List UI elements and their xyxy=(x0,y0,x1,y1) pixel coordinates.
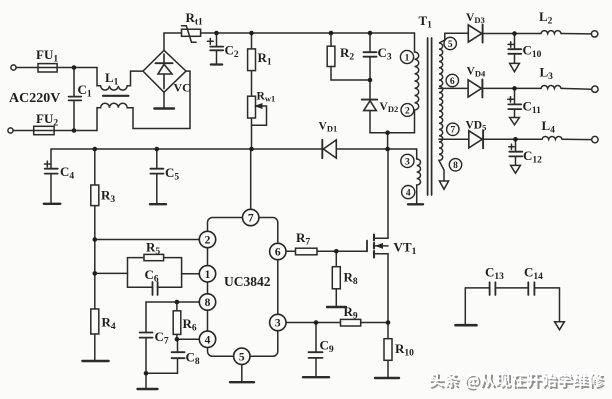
svg-text:8: 8 xyxy=(453,161,458,171)
svg-text:C11: C11 xyxy=(523,99,542,117)
svg-text:R6: R6 xyxy=(183,316,197,334)
svg-text:T1: T1 xyxy=(419,13,433,31)
svg-text:7: 7 xyxy=(450,126,455,136)
svg-text:C5: C5 xyxy=(165,165,179,183)
svg-text:FU1: FU1 xyxy=(36,47,58,65)
svg-text:6: 6 xyxy=(450,77,455,87)
svg-text:L3: L3 xyxy=(540,65,554,83)
svg-text:5: 5 xyxy=(448,40,453,50)
svg-text:8: 8 xyxy=(205,297,211,309)
svg-text:2: 2 xyxy=(205,235,211,247)
svg-text:3: 3 xyxy=(275,318,281,330)
svg-text:C9: C9 xyxy=(320,338,334,356)
svg-text:C8: C8 xyxy=(186,350,200,368)
svg-text:VD1: VD1 xyxy=(319,121,338,134)
svg-text:2: 2 xyxy=(405,106,410,116)
svg-text:FU2: FU2 xyxy=(36,111,58,129)
svg-text:C7: C7 xyxy=(155,329,169,347)
svg-text:Rw1: Rw1 xyxy=(257,91,276,104)
svg-text:R7: R7 xyxy=(296,230,310,248)
svg-text:C6: C6 xyxy=(145,267,159,285)
svg-text:C2: C2 xyxy=(225,43,239,61)
svg-text:L4: L4 xyxy=(542,118,556,136)
svg-text:4: 4 xyxy=(205,334,211,346)
svg-text:C10: C10 xyxy=(523,43,542,61)
svg-text:6: 6 xyxy=(275,247,281,259)
svg-text:VD2: VD2 xyxy=(380,101,399,114)
svg-text:L1: L1 xyxy=(105,70,119,88)
svg-text:C13: C13 xyxy=(485,265,504,283)
svg-text:1: 1 xyxy=(405,53,410,63)
svg-text:VD5: VD5 xyxy=(466,120,487,133)
svg-text:L2: L2 xyxy=(539,9,553,27)
svg-text:C4: C4 xyxy=(60,164,74,182)
svg-text:AC220V: AC220V xyxy=(9,91,60,106)
svg-text:VD3: VD3 xyxy=(466,12,485,25)
svg-text:C14: C14 xyxy=(524,265,543,283)
svg-text:R3: R3 xyxy=(101,188,115,206)
svg-text:3: 3 xyxy=(405,157,410,167)
svg-text:R5: R5 xyxy=(146,240,160,258)
svg-text:5: 5 xyxy=(239,351,245,363)
svg-text:1: 1 xyxy=(205,269,211,281)
svg-text:R9: R9 xyxy=(344,304,358,322)
svg-text:4: 4 xyxy=(406,189,411,199)
svg-text:7: 7 xyxy=(248,213,254,225)
svg-text:VD4: VD4 xyxy=(467,66,486,79)
svg-text:C1: C1 xyxy=(78,82,92,100)
svg-text:R4: R4 xyxy=(102,315,116,333)
svg-text:R2: R2 xyxy=(340,45,354,63)
svg-text:VC: VC xyxy=(174,81,191,95)
svg-text:C3: C3 xyxy=(378,45,392,63)
svg-text:R10: R10 xyxy=(395,341,414,359)
svg-text:R1: R1 xyxy=(258,50,272,68)
svg-text:VT1: VT1 xyxy=(394,240,417,258)
svg-text:Rt1: Rt1 xyxy=(186,10,204,28)
svg-text:R8: R8 xyxy=(344,270,358,288)
svg-text:C12: C12 xyxy=(523,148,542,166)
svg-text:UC3842: UC3842 xyxy=(224,274,271,289)
